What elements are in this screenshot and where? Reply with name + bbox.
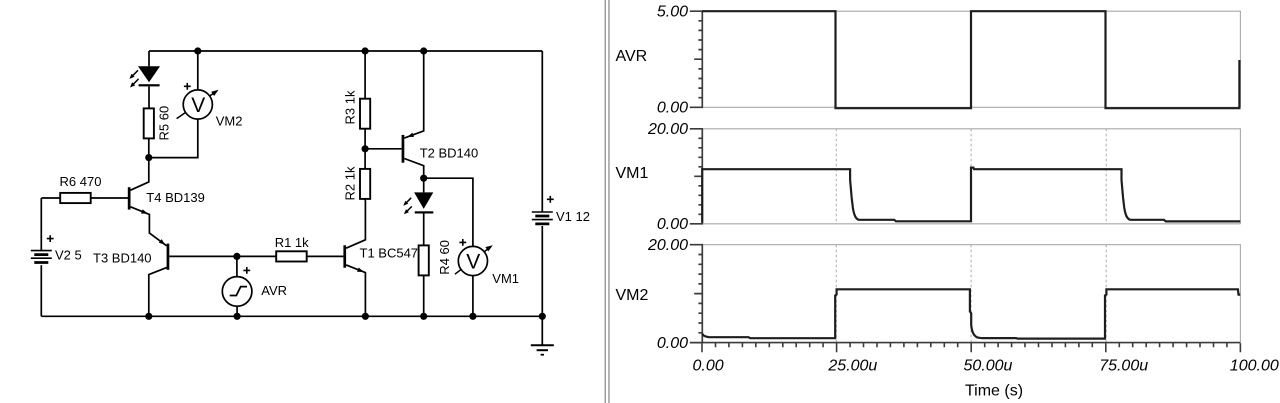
resistor body R3 [360,99,370,129]
svg-text:R4 60: R4 60 [437,240,452,275]
junction V1/ground rail [539,313,546,320]
wire R5 to node [148,138,150,157]
svg-text:VM1: VM1 [616,165,649,182]
wire node to VM1 [424,178,473,246]
svg-text:V1 12: V1 12 [556,209,590,224]
generator AVR [222,277,252,307]
svg-text:R1 1k: R1 1k [275,235,309,250]
svg-text:R5 60: R5 60 [156,106,171,141]
svg-text:T2 BD140: T2 BD140 [420,146,479,161]
wire V2 to R6 [41,197,60,199]
voltmeter VM1 [455,248,489,274]
wire node to AVR [236,256,238,276]
T3 emitter arrow [159,239,166,245]
LED D2 light arrows [405,198,412,213]
svg-text:VM2: VM2 [216,114,243,129]
y-axis AVR [690,11,703,107]
battery symbol V1 [532,212,553,220]
junction T1 emitter / rail [362,313,369,320]
junction AVR / rail [234,313,241,320]
svg-text:20.00: 20.00 [647,121,688,138]
junction top rail / VM2 [194,47,201,54]
junction R4 / rail [420,313,427,320]
plot frame AVR [702,11,1240,107]
wire V2 top [40,198,42,251]
AVR plus sign [243,267,250,274]
resistor body R1 [276,251,307,261]
svg-text:20.00: 20.00 [647,237,688,254]
gridlines VM2 [835,245,837,343]
svg-text:0.00: 0.00 [657,100,688,117]
T1 emitter arrow [357,268,364,273]
svg-text:T3 BD140: T3 BD140 [93,250,152,265]
voltmeter VM2 [177,93,214,119]
resistor body R2 [360,169,370,199]
T3 emitter wire [149,233,167,246]
wire R3 to node [364,129,366,149]
VM2 plus sign [184,83,191,90]
wire VM2 to node [152,119,198,158]
junction top rail / T2 emitter [420,47,427,54]
resistor body R4 [419,245,429,275]
wire R1 to T1 base [307,255,344,257]
wire bottom ground rail [41,315,542,317]
junction T3 collector / rail [145,313,152,320]
junction VM1 / rail [469,313,476,320]
LED D1 [138,66,160,82]
junction top rail / R3 [362,47,369,54]
V1 plus sign [547,196,554,203]
wire node to R2 [364,149,366,169]
svg-text:R3 1k: R3 1k [342,90,357,124]
wire rail to VM2 [197,51,199,90]
wire LED D2 to R4 [423,214,425,246]
T1 emitter [346,265,365,316]
svg-text:50.00u: 50.00u [964,358,1013,375]
T1 collector [346,200,365,248]
ground symbol [531,344,554,346]
wire V2 bottom [40,265,42,316]
T2 collector [404,159,423,176]
transistor T4 BD139 [128,187,131,209]
wire VM1 to rail [472,276,474,317]
junction node T2 collector/LED D2/VM1 [420,175,427,182]
T2 emitter wire [404,51,423,138]
svg-text:V: V [466,251,480,274]
y-axis VM1 [690,129,703,224]
svg-text:25.00u: 25.00u [827,358,877,375]
wire V1 top [541,51,543,212]
T3 collector [149,267,167,316]
junction node R5/VM2/T4 collector [145,154,152,161]
T2 emitter arrow [407,133,414,137]
battery symbol V2 [31,251,52,259]
transistor T1 BC547 [343,245,346,267]
wire LED D1 to R5 [148,86,150,108]
LED D1 light arrows [131,70,139,86]
waveform VM1 [702,168,1240,223]
svg-text:R2 1k: R2 1k [342,166,357,200]
transistor T3 BD140 [167,244,170,270]
LED D2 [414,192,433,209]
junction node R1/AVR/T3 base [233,253,240,260]
wire rail to LED D1 [148,51,150,66]
svg-text:V2 5: V2 5 [55,248,82,263]
T4 emitter [131,207,150,233]
y-axis VM2 [690,245,703,343]
svg-text:R6 470: R6 470 [60,174,102,189]
svg-text:0.00: 0.00 [657,216,688,233]
svg-text:AVR: AVR [616,48,648,65]
plot frame VM1 [702,129,1240,224]
svg-text:5.00: 5.00 [657,4,688,21]
svg-text:100.00: 100.00 [1230,358,1279,375]
svg-text:T1 BC547: T1 BC547 [360,246,419,261]
wire node to R1 [237,255,276,257]
plot frame VM2 [702,245,1240,343]
svg-text:V: V [191,94,205,117]
wire top +12V rail [149,50,542,52]
waveform AVR [702,11,1239,108]
svg-text:0.00: 0.00 [693,358,724,375]
gridlines VM1 [835,129,837,224]
T4 collector [131,161,149,190]
svg-text:Time (s): Time (s) [965,383,1023,400]
wire node to LED D2 [423,178,425,192]
resistor body R6 [60,193,90,203]
svg-text:0.00: 0.00 [657,335,688,352]
svg-text:VM1: VM1 [492,271,519,286]
wire rail to R3 [364,51,366,99]
VM1 plus sign [459,239,466,246]
transistor T2 BD140 [402,135,405,163]
V2 plus sign [47,235,54,242]
junction node R3/R2/T2 base [362,145,369,152]
resistor body R5 [144,108,154,138]
svg-text:75.00u: 75.00u [1099,358,1148,375]
time axis [702,343,1240,353]
waveform VM2 [702,289,1240,338]
T2 base wire [365,148,402,150]
T3 base wire [169,255,237,257]
wire R6 to T4 base [91,197,129,199]
wire R4 to rail [423,275,425,316]
wire AVR to rail [236,306,238,316]
T4 emitter arrow [141,209,148,214]
panel divider [605,0,606,403]
svg-text:AVR: AVR [261,283,287,298]
svg-text:T4 BD139: T4 BD139 [146,190,205,205]
wire V1 bottom to ground [541,226,543,345]
svg-text:VM2: VM2 [616,287,649,304]
wire R2 to T1 collector [364,199,366,201]
